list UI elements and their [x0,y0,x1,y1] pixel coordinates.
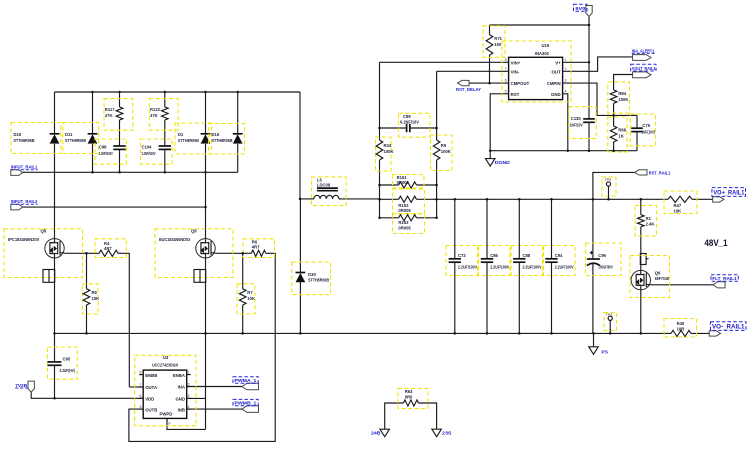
svg-text:100K: 100K [618,97,628,102]
svg-text:STTH8R06B: STTH8R06B [212,138,233,143]
svg-text:C104: C104 [142,145,153,150]
svg-text:D15: D15 [212,132,220,137]
test point TP4 [604,313,617,334]
svg-text:2: 2 [565,67,567,71]
svg-text:Q6: Q6 [655,271,661,276]
svg-text:C94: C94 [555,253,563,258]
wire R71 pullup column [489,25,491,35]
svg-text:8: 8 [140,370,142,374]
connector PWMA_1 [233,377,259,390]
connector VO+_RAIL1 [712,188,746,203]
svg-text:LDC08: LDC08 [317,183,331,188]
resistor R153 0R005 [393,214,425,234]
connector VOUT_RAIL1 [631,64,656,77]
wire analog ground rail [490,150,637,152]
svg-text:3: 3 [565,79,567,83]
svg-text:1: 1 [565,58,567,62]
svg-text:R122: R122 [150,107,161,112]
svg-text:R40: R40 [677,321,685,326]
svg-text:D1: D1 [178,132,184,137]
svg-text:1K: 1K [618,133,623,138]
svg-text:47K: 47K [105,113,113,118]
connector 7V2B power [15,381,34,392]
diode D10 STTH8R06B [11,123,61,154]
wire D11 branch [92,92,94,134]
svg-text:4: 4 [565,89,567,93]
svg-text:U3: U3 [163,355,169,360]
svg-text:R5: R5 [92,290,98,295]
ground PS [589,347,609,356]
svg-text:10K: 10K [92,296,100,301]
svg-text:C130: C130 [571,116,582,121]
resistor R117 47K [104,99,133,131]
svg-text:R152: R152 [398,203,409,208]
test point TP5 [602,177,616,199]
wire D15 branch [237,92,239,134]
capacitor C86 2.2UF/100V [479,246,511,276]
svg-text:6.2NF/16V: 6.2NF/16V [400,119,419,124]
wire C88 column [518,199,520,258]
svg-text:BUC1834N5ND03: BUC1834N5ND03 [159,237,191,242]
svg-text:C75: C75 [642,123,650,128]
capacitor C94 2.2UF/100V [544,246,576,276]
svg-text:R117: R117 [105,107,115,112]
svg-text:CMPOUT: CMPOUT [511,81,530,86]
capacitor C130 1NF/10V [569,107,597,139]
wire driver ground loop [187,397,206,399]
svg-text:8: 8 [505,58,507,62]
node junction dots [53,24,642,400]
svg-text:TP5: TP5 [605,178,612,182]
svg-text:C95: C95 [63,357,71,362]
svg-text:R63: R63 [405,389,413,394]
svg-text:10K: 10K [674,209,682,214]
svg-text:5: 5 [505,89,507,93]
wire output ground drop [593,333,595,346]
op-amp U16 INA302 current monitor [502,41,571,102]
wire Q6 gate [651,284,714,286]
wire VIN+ sense [380,61,509,63]
resistor R5 10K [83,284,100,314]
svg-text:R9: R9 [441,143,447,148]
svg-text:100UF/60V: 100UF/60V [598,264,613,269]
svg-text:U16: U16 [542,43,550,48]
transistor Q8 [4,228,83,277]
svg-text:VIN-: VIN- [511,69,520,74]
connector VO-_RAIL1 [709,322,746,336]
connector INA_ALERT1 [632,48,655,60]
svg-text:STTH8R06B: STTH8R06B [14,138,35,143]
svg-text:R7: R7 [247,290,253,295]
wire INA input [187,386,242,388]
wire VDD supply [31,392,143,398]
wire bottom power rail [55,332,672,334]
svg-text:0R0: 0R0 [405,394,413,399]
svg-text:D30: D30 [308,272,316,277]
wire CMPOUT [469,82,508,84]
svg-text:VOUT_RAIL1: VOUT_RAIL1 [632,66,656,72]
svg-text:4: 4 [188,405,190,409]
svg-text:10R: 10R [677,326,685,331]
inductor L6 LDC08 [312,177,347,206]
svg-text:C88: C88 [523,253,531,258]
svg-text:2.2UF/100V: 2.2UF/100V [555,264,574,269]
svg-text:1: 1 [188,370,190,374]
svg-text:DGND: DGND [495,160,511,166]
svg-text:2.4K: 2.4K [646,222,655,227]
svg-text:IPC1834N5N200: IPC1834N5N200 [8,237,40,242]
svg-text:STTH8R06B: STTH8R06B [308,278,329,283]
svg-text:2.2UF/100V: 2.2UF/100V [458,264,477,269]
svg-text:10K: 10K [247,296,255,301]
svg-text:23S: 23S [442,431,452,437]
svg-text:C86: C86 [490,253,498,258]
resistor R4 4R7 [95,239,126,258]
svg-text:PWMA_1: PWMA_1 [234,378,256,384]
capacitor C104 2.2NF/630V [141,139,173,164]
svg-text:ENBB: ENBB [145,373,157,378]
svg-text:FLT_RAIL1: FLT_RAIL1 [712,276,737,282]
capacitor C88 2.2UF/100V [511,246,543,276]
wire CMPIN node [563,83,637,115]
svg-text:Q9: Q9 [191,228,197,233]
svg-text:OUTB: OUTB [145,407,157,412]
svg-text:5: 5 [140,405,142,409]
resistor R63 0R0 [398,388,428,408]
connector RST_RAIL1 [635,170,671,177]
svg-text:2.2UF/100V: 2.2UF/100V [490,264,509,269]
svg-text:PS: PS [602,349,609,355]
svg-text:5V0: 5V0 [575,6,585,12]
wire VIN- sense [437,70,509,72]
wire shunt bottom path [380,217,399,219]
wire C99 bridge [380,127,407,129]
wire D10/Q8 column [54,92,56,134]
svg-text:1NF(16V): 1NF(16V) [641,130,655,135]
wire OUT to alert connector [563,57,633,71]
svg-text:24B: 24B [371,431,381,437]
svg-text:4R7: 4R7 [252,244,260,249]
wire 5V feed [490,24,590,26]
ground DGND [485,159,510,167]
transistor Q6 65F7048 [630,256,670,298]
svg-text:TP4: TP4 [606,313,613,317]
resistor R66 1K [608,117,627,152]
wire shunt left node [379,62,381,140]
capacitor C96 100UF/60V electrolytic [586,243,622,276]
svg-text:0R005: 0R005 [398,208,411,213]
resistor R151 0R005 [393,175,425,189]
svg-text:D10: D10 [14,132,22,137]
svg-text:ENBA: ENBA [173,373,185,378]
wire R1/Q6 column [640,199,642,214]
svg-text:0R005: 0R005 [398,226,411,231]
svg-text:RST_RAIL1: RST_RAIL1 [649,171,671,177]
svg-text:7: 7 [505,67,507,71]
svg-text:3: 3 [188,394,190,398]
svg-text:R66: R66 [618,128,626,133]
svg-text:PWPD: PWPD [160,411,173,416]
svg-text:R1: R1 [646,216,652,221]
svg-text:R153: R153 [398,220,409,225]
svg-text:R84: R84 [618,91,626,96]
svg-text:C99: C99 [403,114,411,119]
svg-text:7: 7 [140,383,142,387]
ground 24B [371,429,389,437]
diode D1 STTH8R06B [175,123,212,154]
wire shunt right node [436,71,438,140]
svg-text:OUT: OUT [552,69,561,74]
svg-text:0R005: 0R005 [397,180,410,185]
wire output positive rail [437,198,668,200]
svg-text:CMPIN: CMPIN [547,81,561,86]
op-amp U3 UCC27423DGN gate driver [135,355,196,426]
resistor R9 100K [431,135,453,171]
svg-text:R71: R71 [494,36,502,41]
resistor R84 100K [608,82,630,113]
diode D30 STTH8R06B [292,262,331,295]
svg-text:VO+_RAIL1: VO+_RAIL1 [713,190,745,197]
wire V+ pin [563,61,589,63]
wire R5 column [86,253,88,288]
svg-text:INB: INB [178,407,185,412]
connector 5V0 power [574,4,593,16]
svg-text:47K: 47K [150,113,158,118]
svg-text:VIN+: VIN+ [511,60,521,65]
wire VOUT sense divider [614,75,633,90]
diode D15 STTH8R06B [209,124,245,155]
svg-text:STTH8R06B: STTH8R06B [178,138,199,143]
svg-text:2.2UF/100V: 2.2UF/100V [523,264,542,269]
svg-text:OUTA: OUTA [145,385,157,390]
svg-text:2: 2 [188,382,190,386]
svg-text:STTH8R06B: STTH8R06B [65,138,86,143]
wire RST_RAIL1 drop [593,172,635,199]
svg-text:1NF/10V: 1NF/10V [570,123,583,128]
connector RST_DELAY [456,80,482,93]
svg-text:R34: R34 [384,143,392,148]
svg-text:UCC27423DGN: UCC27423DGN [152,362,178,367]
wire D30 column [299,199,301,273]
resistor R40 10R [664,319,697,338]
wire shunt mid path [380,198,399,200]
svg-text:RST: RST [511,92,520,97]
wire INB input [187,408,242,410]
connector INPUT_RAIL1 [11,165,38,176]
connector PWMB_1 [233,399,259,412]
svg-text:VO-_RAIL1: VO-_RAIL1 [712,324,745,331]
wire R63 ground link [385,403,404,429]
wire OUTA to gate A [129,386,143,388]
svg-text:VDD: VDD [145,397,154,402]
wire D1/Q9 column [205,92,207,134]
wire Q8 gate [64,252,99,254]
svg-text:GND: GND [175,397,185,402]
wire C72 column [454,199,456,258]
svg-text:V+: V+ [555,60,561,65]
svg-text:2.2NF/630V: 2.2NF/630V [142,151,156,156]
transistor Q9 [155,228,233,277]
resistor R122 47K [149,99,178,131]
capacitor C72 2.2UF/100V [446,246,478,276]
svg-text:4R7: 4R7 [104,246,112,251]
connector INPUT_RAIL2 [11,199,38,210]
resistor R47 10K [664,191,697,214]
svg-text:2.2NF/630V: 2.2NF/630V [99,151,113,156]
wire C96 column [592,199,594,258]
wire R117/C98 branch [119,92,121,107]
svg-text:INA: INA [178,385,185,390]
wire C86 column [486,199,488,258]
resistor R34 100K [376,137,394,171]
wire input rail 1 [22,171,238,173]
wire C94 column [551,199,553,258]
resistor R71 100 [483,26,505,58]
resistor R152 0R005 [393,189,425,214]
wire input rail 2 [22,206,206,208]
connector FLT_RAIL1 Q6 gate [711,275,738,288]
wire C75 column [636,115,638,128]
svg-text:48V_1: 48V_1 [705,238,728,248]
svg-text:9: 9 [168,422,170,426]
svg-text:D11: D11 [65,132,73,137]
svg-text:100: 100 [494,42,502,47]
svg-text:6: 6 [505,79,507,83]
svg-text:R47: R47 [674,203,682,208]
ground 23S [432,429,453,437]
diode D11 STTH8R06B [63,123,99,154]
svg-text:6: 6 [140,394,142,398]
capacitor C98 2.2NF/630V [95,139,127,164]
svg-text:C96: C96 [598,253,606,258]
wire RST pin [490,94,508,151]
resistor R6 4R7 [243,239,275,258]
jumper Q9 source tab [194,270,206,283]
resistor R7 10K [237,284,255,314]
wire R7 column [242,253,244,288]
wire Q9 gate [215,252,251,254]
svg-text:C72: C72 [458,253,466,258]
svg-text:Q8: Q8 [41,228,47,233]
wire GND pin drop [563,94,568,151]
wire top rail [55,91,301,93]
svg-text:2.2UF(HV): 2.2UF(HV) [60,368,76,373]
jumper Q6 drain tab [640,254,648,265]
wire R122/C104 branch [164,92,166,107]
capacitor C75 1NF(16V) [630,114,655,146]
jumper Q8 source tab [43,270,55,283]
svg-text:INA302: INA302 [535,51,550,56]
capacitor C95 2.2UF(HV) [48,347,78,379]
wire transformer output to inductor [299,92,301,199]
wire shunt top path [380,184,399,186]
svg-text:100K: 100K [384,149,394,154]
svg-text:RST_DELAY: RST_DELAY [456,87,482,93]
svg-text:100K: 100K [441,149,451,154]
svg-text:PWMB_1: PWMB_1 [234,401,256,407]
capacitor C99 6.2NF/16V [399,113,431,137]
svg-text:65F7048: 65F7048 [655,276,670,281]
svg-text:GND: GND [551,92,561,97]
resistor R1 2.4K [635,205,656,236]
svg-text:C98: C98 [99,145,107,150]
